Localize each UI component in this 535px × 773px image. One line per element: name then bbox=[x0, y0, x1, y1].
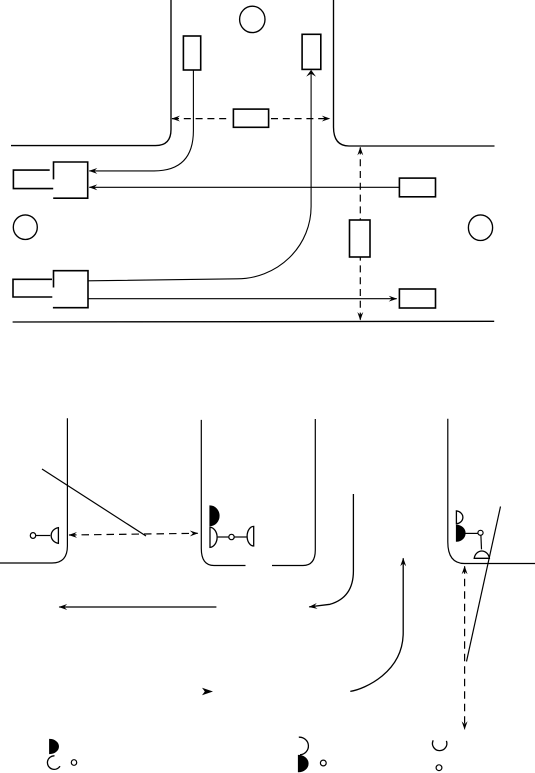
hook left-turn arrow bbox=[309, 494, 353, 607]
bottom-middle symbol: open arc bbox=[299, 737, 309, 755]
leader line 2 bbox=[467, 507, 501, 662]
mouth B right signal: dome head (flat side down) bbox=[474, 551, 489, 558]
white rect over vertical dashed (R5) bbox=[350, 220, 371, 257]
straight arrow D: from controller box 2 to right box 2 bbox=[88, 298, 397, 300]
pedestal signal left: arm bbox=[36, 535, 51, 537]
mouth A right signal: head 2 (flat side right) bbox=[247, 526, 254, 546]
controller box 2 (big open square) bbox=[53, 271, 88, 308]
mouth B right signal: drop line bbox=[480, 535, 483, 549]
right box 2 bbox=[399, 289, 435, 308]
mouth A right signal: head down (flat side left) bbox=[210, 527, 217, 547]
node circle top bbox=[240, 6, 265, 32]
straight/right-turn arrow into mouth B bbox=[350, 558, 403, 691]
detector rectangle top-left (R1) bbox=[183, 36, 200, 70]
long left through arrow bbox=[59, 606, 216, 608]
bottom-middle symbol: black half lens bbox=[298, 755, 308, 771]
vertical dashed double arrow bbox=[359, 147, 361, 320]
node circle right bbox=[468, 215, 492, 241]
mouth A right signal: pole circle bbox=[229, 534, 234, 539]
controller box 1 side tab bbox=[13, 170, 53, 189]
label box on dashed span bbox=[233, 109, 268, 127]
wire: mouth-A right edge with corner into main road heading right bbox=[201, 420, 245, 566]
straight arrow C: from right box 1 to controller box 1 bbox=[89, 186, 399, 188]
controller box 1 (big open square) bbox=[53, 162, 87, 198]
mouth A right signal: arm 2 bbox=[234, 536, 247, 538]
dashed width arrow across mouth A bbox=[69, 533, 198, 535]
mouth B right signal: arm bbox=[465, 532, 478, 534]
dashed span arrow (right head) bbox=[271, 118, 330, 120]
mouth A right signal: black hood bbox=[210, 506, 219, 526]
wire: main road segment before mouth B bbox=[272, 419, 315, 566]
wire: mouth-B right edge with corner into main road heading right bbox=[448, 419, 535, 564]
wire: right road edge with corner curve into upper main-road edge bbox=[334, 0, 495, 146]
bottom-left symbol: open arc bbox=[47, 756, 60, 770]
mouth B right signal: upper head (flat side left) bbox=[456, 511, 462, 524]
mouth B right signal: pole circle bbox=[478, 530, 483, 535]
right box 1 bbox=[399, 178, 435, 197]
bottom-right symbol: pole circle bbox=[436, 765, 442, 771]
pedestal signal left: pole circle bbox=[30, 533, 35, 539]
leader line 1 bbox=[42, 469, 146, 536]
vehicle path B: from controller box 2 right, curving up to R2 bbox=[88, 70, 311, 280]
wire: lower main-road edge bbox=[13, 320, 495, 323]
dashed span arrow (left head) bbox=[172, 118, 231, 120]
bottom-left symbol: black half lens bbox=[50, 739, 59, 753]
controller box 2 side tab bbox=[13, 279, 52, 297]
dashed vertical double arrow at mouth B bbox=[464, 566, 466, 729]
wire: left road edge with corner curve into upper main-road edge bbox=[11, 0, 171, 146]
vehicle path A: from R1 down, curving left to controller box 1 bbox=[89, 70, 193, 171]
lone right arrowhead bbox=[202, 688, 213, 695]
bottom-left symbol: pole circle bbox=[71, 760, 76, 766]
wire: mouth-A left edge with corner into main road heading left bbox=[0, 418, 67, 563]
mouth B right signal: black hood bbox=[456, 525, 465, 541]
bottom-middle symbol: pole circle bbox=[320, 760, 326, 766]
pedestal signal left: head (flat side right) bbox=[51, 528, 58, 544]
node circle left bbox=[13, 215, 37, 240]
bottom-right symbol: open arc bbox=[432, 740, 446, 750]
detector rectangle top-right (R2) bbox=[302, 34, 321, 69]
mouth A right signal: arm bbox=[218, 536, 229, 538]
